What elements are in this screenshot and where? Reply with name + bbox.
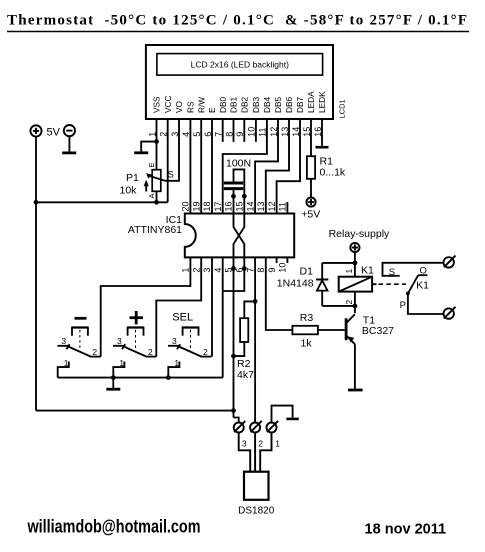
svg-text:14: 14	[245, 201, 255, 211]
push button S1 minus pin3 stub	[57, 345, 69, 347]
wire R2 top to DQ	[244, 301, 255, 318]
wire LCD pin5 to IC1 pin 19	[200, 119, 202, 214]
wire LCD pin16 LEDK to ground	[321, 119, 323, 146]
svg-text:E: E	[147, 162, 156, 167]
svg-text:Relay-supply: Relay-supply	[329, 228, 390, 240]
svg-text:DB7: DB7	[295, 96, 305, 113]
svg-text:A: A	[147, 193, 156, 198]
wire rail to ground symbol	[112, 378, 114, 388]
svg-text:1: 1	[174, 358, 179, 368]
svg-text:DB2: DB2	[240, 96, 250, 113]
wire D1 anode to relay coil bottom	[322, 305, 355, 307]
stub IC pin9 unused	[276, 257, 278, 263]
wire connector1 to ground	[272, 406, 293, 423]
push button S1 minus actuator	[71, 328, 89, 351]
P1 adjust arrow	[144, 180, 149, 192]
button MINUS symbol label	[75, 317, 87, 320]
contact O fixed line	[418, 274, 427, 276]
svg-text:16: 16	[224, 201, 234, 211]
push button S3 SEL pin2 stub	[201, 356, 212, 358]
junction IC pin5 below IC	[231, 266, 236, 271]
svg-text:3: 3	[202, 268, 212, 273]
wire connector3 to DS1820	[239, 433, 251, 472]
stub LCD pin8 unused	[233, 119, 235, 142]
LCD display LCD1	[146, 45, 333, 119]
svg-text:BC327: BC327	[362, 325, 394, 337]
svg-text:1: 1	[119, 358, 124, 368]
wire into IC pin16	[233, 196, 235, 213]
svg-text:E: E	[207, 107, 217, 113]
svg-text:K1: K1	[416, 279, 429, 291]
svg-text:12: 12	[267, 201, 277, 211]
wire +5V down to rail	[35, 137, 37, 203]
connector 1	[267, 421, 279, 433]
wire pivot to P terminal	[408, 293, 444, 314]
wire IC pin2 to plus button	[156, 257, 201, 356]
junction at IC pin16	[231, 194, 236, 199]
wire cap bottom plate to IC pin 16	[233, 190, 235, 196]
Relay-supply plus terminal	[350, 243, 359, 252]
svg-text:1: 1	[181, 268, 191, 273]
svg-text:1: 1	[344, 269, 354, 274]
wire LCD pin2 VCC riser	[167, 119, 169, 202]
diode D1 1N4148	[316, 263, 328, 306]
wire T1 emitter to ground	[354, 344, 356, 389]
svg-text:17: 17	[213, 201, 223, 211]
wire bottom +5V rail to DS1820 supply	[36, 410, 234, 412]
wire IC pin7 DQ down to sensor connector	[254, 257, 256, 422]
potentiometer P1 10k body	[152, 170, 161, 192]
0V (minus) supply terminal	[64, 125, 75, 152]
pot wiper arrow	[146, 173, 165, 181]
wire cap top plate to IC pin 15 wire	[234, 169, 245, 196]
svg-text:DB5: DB5	[273, 96, 283, 113]
junction plus button on rail	[111, 375, 116, 380]
svg-text:R3: R3	[300, 312, 314, 324]
junction pot A on +5V rail	[154, 200, 159, 205]
junction DQ and R2	[253, 299, 258, 304]
push button S2 plus lever	[122, 344, 146, 356]
svg-text:100N: 100N	[226, 158, 251, 170]
push button S1 minus pin2 stub	[90, 356, 101, 358]
relay contact terminal O top right	[444, 256, 456, 268]
push button S3 SEL lever	[177, 344, 201, 356]
svg-text:ATTINY861: ATTINY861	[128, 224, 182, 236]
push button S3 SEL pin3 stub	[168, 345, 180, 347]
wire VSS to ground	[141, 142, 156, 152]
svg-text:2: 2	[344, 300, 354, 305]
junction bottom rail to DS1820 vcc	[231, 408, 236, 413]
push button S2 plus actuator	[127, 328, 145, 351]
internal supply cross wires	[234, 214, 245, 258]
sensor DS1820 body	[244, 472, 269, 500]
wire LCD pin14 DB7 to IC1 pin 12	[277, 119, 300, 214]
svg-text:DB4: DB4	[262, 96, 272, 113]
svg-text:+5V: +5V	[301, 209, 320, 221]
svg-text:18 nov 2011: 18 nov 2011	[365, 520, 447, 537]
wire LCD pin13 DB6 to IC1 pin 13	[266, 119, 289, 214]
wire R3 to T1 base	[318, 329, 345, 331]
wire +5V horizontal rail to LCD pin 2	[36, 201, 168, 203]
svg-text:3: 3	[61, 336, 66, 346]
svg-text:P1: P1	[126, 172, 139, 184]
svg-text:4k7: 4k7	[237, 369, 254, 381]
svg-text:2: 2	[148, 347, 153, 357]
wire pot A terminal to +5V rail	[156, 191, 158, 202]
buttons common rail	[58, 377, 223, 379]
capacitor C 100N top plate	[224, 182, 243, 185]
svg-text:SEL: SEL	[172, 311, 193, 323]
wire pot E terminal to VSS node	[156, 142, 158, 170]
svg-text:S: S	[168, 170, 174, 181]
junction relay supply and D1	[353, 261, 358, 266]
svg-text:DB0: DB0	[218, 96, 228, 113]
svg-text:2: 2	[92, 347, 97, 357]
push button S1 minus pin1 wire	[58, 362, 69, 378]
push button S2 plus pin2 stub	[146, 356, 157, 358]
push button S1 minus lever	[66, 344, 90, 356]
wire IC pin6 GND to rail	[223, 257, 245, 291]
svg-text:7: 7	[245, 268, 255, 273]
svg-text:4: 4	[213, 268, 223, 273]
push button S2 plus pin1 wire	[113, 362, 124, 378]
ground bar at LCD pin1	[134, 151, 148, 154]
contact pivot	[406, 292, 410, 296]
svg-text:2: 2	[258, 439, 263, 449]
wire LCD pin1 VSS down	[156, 119, 158, 142]
svg-text:11: 11	[278, 202, 288, 211]
junction +5V rail	[34, 200, 39, 205]
svg-text:VCC: VCC	[163, 95, 173, 113]
push button S3 SEL actuator	[182, 328, 200, 351]
svg-text:20: 20	[181, 201, 191, 211]
svg-text:19: 19	[191, 201, 201, 211]
svg-text:1N4148: 1N4148	[277, 278, 314, 290]
svg-text:DB6: DB6	[284, 96, 294, 113]
svg-text:LCD 2x16 (LED backlight): LCD 2x16 (LED backlight)	[191, 60, 289, 70]
svg-text:2: 2	[191, 268, 201, 273]
wire relay supply down	[354, 252, 356, 277]
wire LCD pin4 to IC1 pin 20	[189, 119, 191, 214]
svg-text:LEDK: LEDK	[317, 91, 327, 113]
svg-text:10: 10	[278, 263, 288, 273]
svg-text:DS1820: DS1820	[238, 506, 275, 517]
resistor R1 body	[307, 156, 315, 179]
svg-text:13: 13	[256, 201, 266, 211]
wire relay coil bottom to T1 collector	[354, 292, 356, 313]
ground bar below T1	[348, 389, 363, 392]
connector 3	[234, 421, 246, 433]
junction IC pin6 below IC	[242, 266, 247, 271]
svg-text:10k: 10k	[120, 185, 138, 197]
ground bar at connector1	[286, 418, 298, 421]
svg-text:Thermostat -50°C to 125°C / 0: Thermostat -50°C to 125°C / 0.1°C & -58°…	[7, 12, 467, 28]
svg-text:P: P	[400, 300, 406, 311]
junction VSS node	[154, 139, 159, 144]
relay K1 coil body	[339, 277, 372, 292]
resistor R2 body	[240, 318, 248, 342]
transistor T1 BC327	[346, 314, 355, 344]
junction R2 to VCC	[231, 354, 236, 359]
wire VCC into connector 3	[234, 418, 239, 423]
svg-text:VO: VO	[174, 100, 184, 113]
wire IC pin5 VCC down to DS1820 supply	[233, 257, 235, 417]
svg-text:2: 2	[203, 347, 208, 357]
wire LCD pin15 LEDA to R1	[310, 119, 312, 156]
push button S2 plus pin3 stub	[113, 345, 125, 347]
connector 2	[250, 421, 262, 433]
wire LCD pin6 to IC1 pin 18	[211, 119, 213, 214]
wire IC pin4 to buttons rail	[222, 257, 224, 377]
ground bar at LCD pin16	[316, 146, 329, 149]
svg-text:5V: 5V	[47, 127, 61, 139]
svg-text:3: 3	[172, 336, 177, 346]
contact lever	[408, 275, 418, 293]
svg-text:9: 9	[267, 268, 277, 273]
svg-text:D1: D1	[300, 266, 314, 278]
wire connector2 to DS1820	[254, 433, 256, 472]
svg-text:1: 1	[275, 439, 280, 449]
svg-text:1k: 1k	[301, 338, 313, 350]
wire contact S terminal	[383, 263, 444, 276]
wire pot wiper S to LCD pin3 VO	[165, 119, 179, 181]
dashed link coil to contact	[372, 283, 376, 285]
ground bar below buttons rail	[106, 388, 120, 391]
svg-text:8: 8	[256, 268, 266, 273]
capacitor C 100N bottom plate	[224, 187, 243, 190]
wire to D1 cathode	[322, 262, 355, 264]
svg-text:3: 3	[242, 439, 247, 449]
wire into IC pin15	[243, 196, 245, 213]
stub LCD pin7 unused	[222, 119, 224, 142]
+5V terminal at R1	[306, 198, 315, 207]
svg-text:R/W: R/W	[196, 97, 206, 113]
svg-text:0...1k: 0...1k	[320, 167, 346, 179]
svg-text:williamdob@hotmail.com: williamdob@hotmail.com	[27, 517, 201, 537]
svg-text:1: 1	[64, 358, 69, 368]
svg-text:15: 15	[235, 201, 245, 211]
ground bar of minus terminal	[62, 151, 76, 154]
wire connector1 to DS1820	[260, 433, 271, 472]
svg-text:DB1: DB1	[229, 96, 239, 113]
junction SEL button on rail	[166, 375, 171, 380]
svg-text:LEDA: LEDA	[306, 91, 316, 113]
wire +5V left rail down	[35, 202, 37, 410]
junction coil bottom D1 T1	[353, 304, 358, 309]
wire IC pin3 to SEL button	[211, 257, 213, 356]
IC U1 ATTINY861 body	[185, 214, 294, 258]
svg-text:O: O	[420, 266, 427, 277]
stub LCD pin9 unused	[243, 119, 245, 142]
relay contact terminal P bottom right	[444, 307, 456, 319]
svg-text:RS: RS	[186, 101, 196, 113]
button PLUS symbol label	[130, 311, 144, 324]
stub IC pin10 unused	[286, 257, 288, 263]
svg-text:S: S	[389, 267, 395, 278]
wire R1 to +5V terminal	[310, 179, 312, 198]
svg-text:K1: K1	[361, 265, 374, 277]
resistor R3 body	[292, 326, 318, 335]
stub LCD pin10 unused	[255, 119, 257, 142]
+5V supply terminal	[30, 125, 60, 138]
wire LCD pin12 DB5 to IC1 pin 14	[255, 119, 278, 214]
svg-text:18: 18	[202, 201, 212, 211]
svg-text:LCD1: LCD1	[338, 99, 347, 118]
push button S3 SEL pin1 wire	[168, 362, 179, 378]
wire IC pin1 to minus button	[101, 257, 191, 356]
wire LCD pin11 DB4 to IC1 pin 17	[223, 119, 267, 214]
svg-text:DB3: DB3	[251, 96, 261, 113]
svg-text:3: 3	[117, 336, 122, 346]
wire R2 bottom to VCC wire	[234, 342, 245, 356]
junction at IC pin15	[242, 194, 247, 199]
stub IC pin11 unused	[286, 202, 288, 214]
svg-text:VSS: VSS	[152, 96, 162, 113]
wire IC pin8 to R3	[266, 257, 293, 330]
